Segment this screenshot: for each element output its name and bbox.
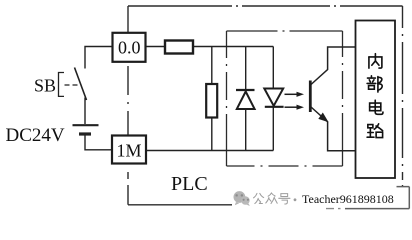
SB linkage dashes [65,84,79,86]
wire from 0.0 box to switch [85,47,112,69]
light arrow upper [285,92,305,97]
label 路 (lu) [367,124,382,138]
watermark dot [294,198,297,201]
terminal box 0.0 [113,33,146,62]
terminal box 1M [112,136,146,164]
diode VD (pointing up) [236,89,255,91]
svg-text:PLC: PLC [171,173,208,195]
SB actuator bracket [59,73,65,97]
svg-text:Teacher961898108: Teacher961898108 [302,192,394,206]
label 电 (dian) [370,100,383,114]
watermark 号 [279,194,290,204]
vertical resistor branch [211,47,213,151]
phototransistor [310,47,355,151]
watermark badge [232,186,412,211]
watermark 众 [266,193,277,204]
optocoupler LED (pointing down) [264,89,283,106]
pushbutton SB blade [75,68,87,101]
battery DC24V plates [73,124,99,126]
label 部 (bu) [367,76,382,92]
watermark 公 [254,193,264,203]
wire battery to 1M [85,136,112,150]
internal circuit box [356,21,396,179]
wire switch to battery [84,98,86,125]
LED branch wire [272,47,274,151]
watermark wechat icon [234,191,250,206]
diode branch wire [245,47,247,151]
svg-text:0.0: 0.0 [118,38,141,58]
PLC boundary (dash-dot frame) [128,6,403,205]
svg-text:DC24V: DC24V [6,125,65,146]
series resistor [165,41,193,54]
light arrow lower [285,105,305,110]
label 内 (nei) [369,54,382,68]
top rail wire [147,46,274,48]
vertical resistor [206,84,217,118]
svg-text:1M: 1M [116,140,141,160]
svg-text:SB: SB [34,76,56,96]
bottom rail wire [147,150,273,152]
optocoupler boundary (dash-dot box) [227,31,343,166]
